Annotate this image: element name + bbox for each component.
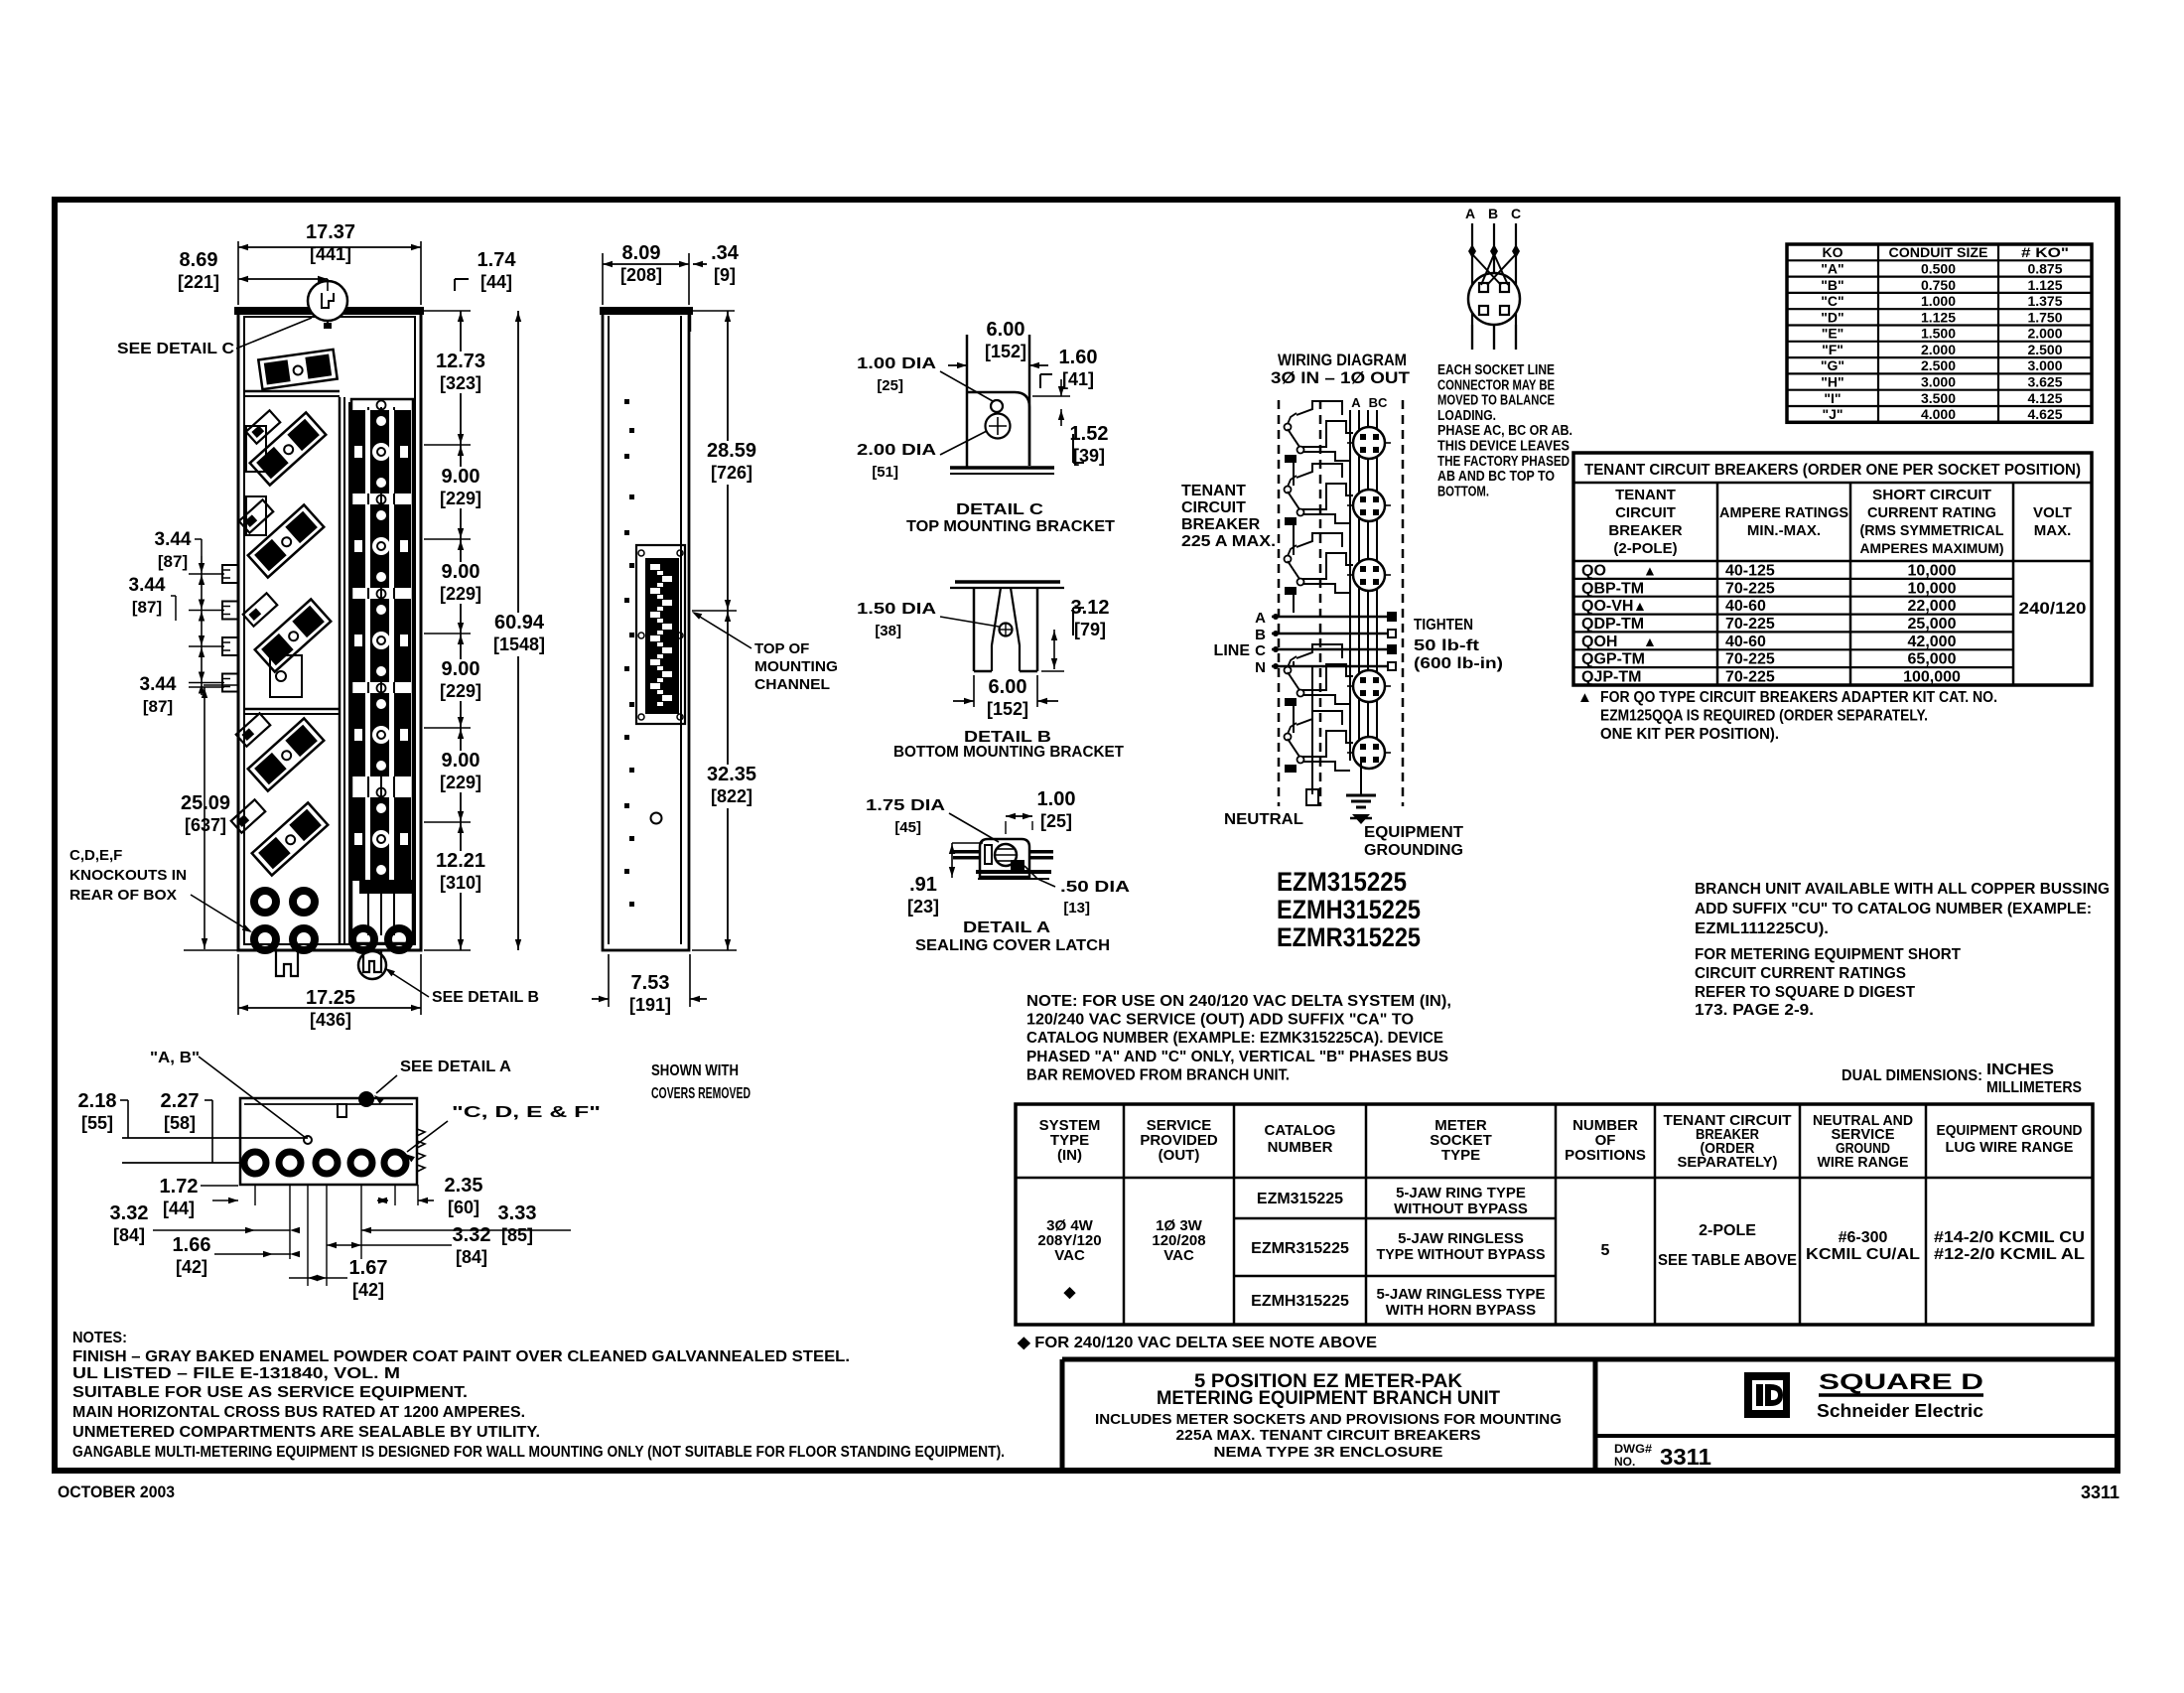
svg-text:MOUNTING: MOUNTING [754, 658, 838, 675]
svg-text:CONDUIT SIZE: CONDUIT SIZE [1889, 244, 1988, 260]
svg-text:225 A MAX.: 225 A MAX. [1181, 533, 1276, 550]
svg-text:MAIN HORIZONTAL CROSS BUS RATE: MAIN HORIZONTAL CROSS BUS RATED AT 1200 … [72, 1404, 525, 1421]
svg-text:SEALING COVER LATCH: SEALING COVER LATCH [915, 937, 1110, 954]
svg-text:9.00: 9.00 [442, 658, 480, 680]
svg-text:(RMS SYMMETRICAL: (RMS SYMMETRICAL [1860, 522, 2004, 539]
svg-text:EQUIPMENT: EQUIPMENT [1364, 824, 1463, 841]
svg-text:NOTES:: NOTES: [72, 1330, 127, 1346]
svg-text:1.75 DIA: 1.75 DIA [866, 797, 946, 814]
svg-text:QOH: QOH [1581, 634, 1617, 650]
svg-text:LINE: LINE [1214, 642, 1251, 659]
svg-text:EZMR315225: EZMR315225 [1251, 1240, 1349, 1257]
svg-text:METERING EQUIPMENT BRANCH UNIT: METERING EQUIPMENT BRANCH UNIT [1157, 1388, 1500, 1409]
svg-text:BRANCH UNIT AVAILABLE WITH ALL: BRANCH UNIT AVAILABLE WITH ALL COPPER BU… [1695, 881, 2110, 898]
svg-text:4.625: 4.625 [2027, 406, 2062, 422]
svg-text:LUG WIRE RANGE: LUG WIRE RANGE [1946, 1139, 2074, 1156]
svg-text:1.60: 1.60 [1059, 347, 1098, 368]
svg-text:22,000: 22,000 [1908, 598, 1957, 615]
svg-text:[229]: [229] [440, 773, 481, 792]
svg-text:[23]: [23] [907, 897, 939, 917]
svg-text:[38]: [38] [875, 623, 901, 639]
svg-text:1.74: 1.74 [478, 249, 517, 271]
svg-text:2.35: 2.35 [445, 1175, 483, 1197]
svg-text:CATALOG: CATALOG [1265, 1122, 1336, 1139]
svg-text:A: A [1255, 610, 1266, 627]
svg-text:BC: BC [1369, 395, 1388, 410]
svg-text:[9]: [9] [714, 265, 736, 285]
svg-text:70-225: 70-225 [1725, 580, 1775, 597]
svg-text:3311: 3311 [2081, 1482, 2119, 1502]
svg-text:[87]: [87] [132, 598, 162, 617]
svg-text:1.000: 1.000 [1921, 293, 1956, 309]
svg-text:WIRING DIAGRAM: WIRING DIAGRAM [1278, 351, 1407, 369]
svg-text:Schneider Electric: Schneider Electric [1817, 1401, 1983, 1421]
svg-text:1.375: 1.375 [2027, 293, 2062, 309]
svg-text:6.00: 6.00 [987, 319, 1025, 341]
svg-text:N: N [1255, 659, 1266, 676]
svg-text:QO: QO [1581, 562, 1606, 579]
svg-text:1.72: 1.72 [160, 1176, 199, 1198]
svg-text:[436]: [436] [310, 1010, 351, 1030]
svg-text:[44]: [44] [480, 272, 512, 292]
svg-text:ONE KIT PER POSITION).: ONE KIT PER POSITION). [1600, 726, 1779, 743]
svg-text:EZML111225CU).: EZML111225CU). [1695, 920, 1829, 937]
svg-text:BAR REMOVED FROM BRANCH UNIT.: BAR REMOVED FROM BRANCH UNIT. [1026, 1066, 1290, 1083]
svg-text:VAC: VAC [1054, 1247, 1085, 1264]
svg-text:REFER TO SQUARE D DIGEST: REFER TO SQUARE D DIGEST [1695, 984, 1915, 1001]
svg-text:B: B [1255, 627, 1266, 643]
svg-text:EQUIPMENT GROUND: EQUIPMENT GROUND [1937, 1122, 2083, 1139]
svg-text:B: B [1488, 206, 1498, 221]
svg-text:.34: .34 [711, 242, 740, 264]
svg-text:"F": "F" [1822, 342, 1843, 357]
svg-text:[42]: [42] [352, 1280, 384, 1300]
svg-text:[221]: [221] [178, 272, 219, 292]
svg-text:BOTTOM MOUNTING BRACKET: BOTTOM MOUNTING BRACKET [893, 744, 1124, 761]
svg-text:[25]: [25] [1040, 811, 1072, 831]
svg-text:[51]: [51] [872, 464, 898, 481]
svg-text:DWG#: DWG# [1614, 1442, 1652, 1456]
svg-text:[84]: [84] [113, 1225, 145, 1245]
svg-text:DETAIL A: DETAIL A [963, 919, 1051, 936]
svg-text:▲: ▲ [1577, 689, 1592, 706]
svg-text:[84]: [84] [456, 1247, 487, 1267]
svg-text:12.73: 12.73 [436, 351, 485, 372]
svg-text:70-225: 70-225 [1725, 651, 1775, 668]
svg-text:INCLUDES METER SOCKETS AND PRO: INCLUDES METER SOCKETS AND PROVISIONS FO… [1095, 1411, 1562, 1428]
svg-text:GANGABLE MULTI-METERING EQUIPM: GANGABLE MULTI-METERING EQUIPMENT IS DES… [72, 1444, 1005, 1461]
svg-text:1.52: 1.52 [1070, 423, 1109, 445]
svg-text:[79]: [79] [1074, 620, 1106, 639]
svg-text:2.500: 2.500 [2027, 342, 2062, 357]
svg-text:50 lb-ft: 50 lb-ft [1414, 637, 1480, 654]
svg-text:FINISH – GRAY BAKED ENAMEL POW: FINISH – GRAY BAKED ENAMEL POWDER COAT P… [72, 1348, 850, 1365]
svg-text:# KO": # KO" [2021, 244, 2069, 260]
svg-text:NO.: NO. [1614, 1455, 1635, 1469]
svg-text:C: C [1511, 206, 1521, 221]
svg-text:UNMETERED COMPARTMENTS ARE SEA: UNMETERED COMPARTMENTS ARE SEALABLE BY U… [72, 1424, 540, 1441]
svg-text:(OUT): (OUT) [1159, 1147, 1200, 1164]
svg-text:TOP MOUNTING BRACKET: TOP MOUNTING BRACKET [906, 518, 1115, 535]
svg-text:CIRCUIT: CIRCUIT [1615, 504, 1676, 521]
svg-text:17.25: 17.25 [306, 987, 355, 1009]
svg-text:[87]: [87] [143, 697, 173, 716]
svg-text:.50 DIA: .50 DIA [1060, 879, 1131, 896]
svg-text:SEE DETAIL A: SEE DETAIL A [400, 1058, 511, 1075]
svg-text:KCMIL CU/AL: KCMIL CU/AL [1806, 1246, 1920, 1263]
svg-text:[13]: [13] [1063, 900, 1090, 917]
svg-text:0.875: 0.875 [2027, 260, 2062, 276]
svg-text:[44]: [44] [163, 1199, 195, 1218]
svg-text:SEE DETAIL C: SEE DETAIL C [117, 341, 234, 357]
svg-text:TENANT CIRCUIT BREAKERS (ORDER: TENANT CIRCUIT BREAKERS (ORDER ONE PER S… [1584, 462, 2081, 479]
svg-text:[822]: [822] [711, 786, 752, 806]
svg-text:8.69: 8.69 [180, 249, 218, 271]
svg-text:[42]: [42] [176, 1257, 207, 1277]
svg-text:EZM315225: EZM315225 [1277, 867, 1407, 897]
svg-text:KO: KO [1823, 244, 1843, 260]
svg-text:EZMR315225: EZMR315225 [1277, 922, 1421, 952]
svg-text:REAR OF BOX: REAR OF BOX [69, 887, 177, 904]
svg-text:1.00 DIA: 1.00 DIA [857, 355, 937, 372]
svg-text:60.94: 60.94 [494, 612, 545, 634]
svg-text:65,000: 65,000 [1908, 651, 1957, 668]
svg-text:▲: ▲ [1643, 562, 1657, 578]
svg-text:70-225: 70-225 [1725, 669, 1775, 686]
svg-text:5: 5 [1601, 1242, 1610, 1259]
svg-text:9.00: 9.00 [442, 561, 480, 583]
svg-text:WIRE RANGE: WIRE RANGE [1818, 1154, 1909, 1171]
svg-text:40-60: 40-60 [1725, 634, 1766, 650]
svg-text:1.500: 1.500 [1921, 326, 1956, 342]
svg-text:[152]: [152] [987, 699, 1028, 719]
svg-text:"B": "B" [1821, 277, 1843, 293]
svg-text:WITH HORN BYPASS: WITH HORN BYPASS [1386, 1302, 1536, 1319]
svg-text:6.00: 6.00 [989, 676, 1027, 698]
svg-text:1.750: 1.750 [2027, 309, 2062, 325]
svg-text:1.50 DIA: 1.50 DIA [857, 601, 937, 618]
svg-text:BREAKER: BREAKER [1608, 522, 1682, 539]
svg-text:SEE TABLE ABOVE: SEE TABLE ABOVE [1658, 1252, 1797, 1269]
svg-text:"I": "I" [1824, 390, 1841, 406]
svg-text:TOP OF: TOP OF [754, 640, 809, 657]
svg-text:SEE DETAIL B: SEE DETAIL B [432, 989, 539, 1006]
svg-text:"G": "G" [1821, 357, 1844, 373]
svg-text:2.000: 2.000 [2027, 326, 2062, 342]
svg-text:0.500: 0.500 [1921, 260, 1956, 276]
svg-text:MILLIMETERS: MILLIMETERS [1986, 1079, 2082, 1096]
svg-text:THE FACTORY PHASED: THE FACTORY PHASED [1437, 454, 1570, 470]
svg-text:CONNECTOR MAY BE: CONNECTOR MAY BE [1437, 377, 1555, 393]
svg-text:173. PAGE 2-9.: 173. PAGE 2-9. [1695, 1002, 1814, 1019]
svg-text:[58]: [58] [164, 1113, 196, 1133]
svg-text:FOR METERING EQUIPMENT SHORT: FOR METERING EQUIPMENT SHORT [1695, 946, 1961, 963]
svg-text:100,000: 100,000 [1903, 669, 1961, 686]
svg-text:SQUARE D: SQUARE D [1819, 1369, 1983, 1394]
svg-text:4.000: 4.000 [1921, 406, 1956, 422]
svg-text:2.500: 2.500 [1921, 357, 1956, 373]
svg-text:C,D,E,F: C,D,E,F [69, 847, 122, 864]
svg-text:120/240 VAC SERVICE (OUT) ADD: 120/240 VAC SERVICE (OUT) ADD SUFFIX "CA… [1026, 1012, 1414, 1029]
svg-text:3.44: 3.44 [129, 575, 166, 596]
svg-text:◆: ◆ [1063, 1284, 1076, 1301]
svg-text:POSITIONS: POSITIONS [1565, 1147, 1646, 1164]
svg-text:"C, D, E & F": "C, D, E & F" [452, 1104, 601, 1121]
svg-text:5-JAW RINGLESS: 5-JAW RINGLESS [1398, 1230, 1524, 1247]
svg-text:42,000: 42,000 [1908, 634, 1957, 650]
svg-text:A: A [1351, 395, 1361, 410]
svg-text:3.000: 3.000 [1921, 374, 1956, 390]
svg-text:[87]: [87] [158, 552, 188, 571]
svg-text:MAX.: MAX. [2034, 522, 2072, 539]
svg-text:[55]: [55] [81, 1113, 113, 1133]
svg-text:4.125: 4.125 [2027, 390, 2062, 406]
svg-text:SUITABLE FOR USE AS SERVICE EQ: SUITABLE FOR USE AS SERVICE EQUIPMENT. [72, 1384, 468, 1401]
svg-text:3.500: 3.500 [1921, 390, 1956, 406]
svg-text:COVERS REMOVED: COVERS REMOVED [651, 1085, 751, 1102]
svg-text:VOLT: VOLT [2033, 504, 2072, 521]
svg-text:240/120: 240/120 [2019, 599, 2087, 618]
svg-text:[229]: [229] [440, 681, 481, 701]
svg-text:225A MAX. TENANT CIRCUIT BREAK: 225A MAX. TENANT CIRCUIT BREAKERS [1176, 1427, 1481, 1444]
svg-text:EZMH315225: EZMH315225 [1251, 1293, 1349, 1310]
svg-text:1.00: 1.00 [1037, 788, 1076, 810]
svg-text:#6-300: #6-300 [1839, 1229, 1888, 1246]
svg-text:10,000: 10,000 [1908, 580, 1957, 597]
svg-text:"A, B": "A, B" [150, 1050, 200, 1066]
svg-text:2.27: 2.27 [161, 1090, 200, 1112]
svg-text:QJP-TM: QJP-TM [1581, 669, 1641, 686]
svg-text:3.32: 3.32 [110, 1202, 149, 1224]
svg-text:9.00: 9.00 [442, 750, 480, 772]
svg-text:NOTE: FOR USE ON 240/120 VAC D: NOTE: FOR USE ON 240/120 VAC DELTA SYSTE… [1026, 993, 1451, 1010]
svg-text:TYPE: TYPE [1441, 1147, 1480, 1164]
svg-text:MOVED TO BALANCE: MOVED TO BALANCE [1437, 393, 1555, 409]
svg-text:3.000: 3.000 [2027, 357, 2062, 373]
svg-text:QGP-TM: QGP-TM [1581, 651, 1645, 668]
svg-text:QBP-TM: QBP-TM [1581, 580, 1644, 597]
svg-text:2.000: 2.000 [1921, 342, 1956, 357]
svg-text:[229]: [229] [440, 489, 481, 508]
svg-text:DETAIL C: DETAIL C [956, 501, 1044, 518]
svg-text:(600 lb-in): (600 lb-in) [1414, 655, 1503, 672]
svg-text:[208]: [208] [620, 265, 662, 285]
svg-text:[1548]: [1548] [493, 635, 545, 654]
svg-text:NEUTRAL: NEUTRAL [1224, 811, 1303, 828]
svg-text:1.67: 1.67 [349, 1257, 388, 1279]
svg-text:[726]: [726] [711, 463, 752, 483]
svg-text:"J": "J" [1822, 406, 1843, 422]
svg-text:CATALOG NUMBER (EXAMPLE: EZMK3: CATALOG NUMBER (EXAMPLE: EZMK315225CA). … [1026, 1030, 1443, 1047]
svg-text:"E": "E" [1822, 326, 1844, 342]
svg-text:CIRCUIT CURRENT RATINGS: CIRCUIT CURRENT RATINGS [1695, 965, 1906, 982]
svg-text:▲: ▲ [1643, 634, 1657, 649]
svg-text:28.59: 28.59 [707, 440, 756, 462]
svg-text:3Ø IN – 1Ø OUT: 3Ø IN – 1Ø OUT [1271, 368, 1411, 387]
svg-text:EZMH315225: EZMH315225 [1277, 895, 1421, 924]
svg-text:[441]: [441] [310, 244, 351, 264]
svg-text:2.18: 2.18 [78, 1090, 117, 1112]
svg-text:3.44: 3.44 [155, 529, 192, 550]
svg-text:A: A [1465, 206, 1475, 221]
svg-text:AB AND BC TOP TO: AB AND BC TOP TO [1437, 469, 1555, 485]
svg-text:3311: 3311 [1660, 1444, 1711, 1470]
svg-text:25.09: 25.09 [181, 792, 230, 814]
svg-text:KNOCKOUTS IN: KNOCKOUTS IN [69, 867, 187, 884]
svg-text:MIN.-MAX.: MIN.-MAX. [1747, 522, 1821, 539]
svg-text:[229]: [229] [440, 584, 481, 604]
svg-text:17.37: 17.37 [306, 221, 355, 243]
svg-text:CURRENT RATING: CURRENT RATING [1867, 504, 1996, 521]
svg-text:3.33: 3.33 [498, 1202, 537, 1224]
svg-text:ADD SUFFIX "CU" TO CATALOG NUM: ADD SUFFIX "CU" TO CATALOG NUMBER (EXAMP… [1695, 901, 2092, 917]
svg-text:VAC: VAC [1163, 1247, 1194, 1264]
svg-text:25,000: 25,000 [1908, 616, 1957, 633]
svg-text:[60]: [60] [448, 1198, 479, 1217]
svg-text:NEMA TYPE 3R ENCLOSURE: NEMA TYPE 3R ENCLOSURE [1214, 1444, 1443, 1461]
svg-text:SHORT CIRCUIT: SHORT CIRCUIT [1872, 487, 1991, 503]
svg-text:[310]: [310] [440, 873, 481, 893]
svg-text:0.750: 0.750 [1921, 277, 1956, 293]
svg-text:10,000: 10,000 [1908, 562, 1957, 579]
svg-text:C: C [1255, 642, 1266, 659]
svg-text:◆ FOR 240/120 VAC DELTA SEE NO: ◆ FOR 240/120 VAC DELTA SEE NOTE ABOVE [1017, 1335, 1377, 1351]
svg-text:DUAL DIMENSIONS:: DUAL DIMENSIONS: [1842, 1067, 1982, 1084]
svg-text:70-225: 70-225 [1725, 616, 1775, 633]
svg-text:EZM315225: EZM315225 [1257, 1191, 1343, 1207]
svg-text:3.625: 3.625 [2027, 374, 2062, 390]
svg-text:"H": "H" [1821, 374, 1843, 390]
svg-text:2-POLE: 2-POLE [1699, 1222, 1756, 1239]
svg-text:40-60: 40-60 [1725, 598, 1766, 615]
svg-text:5-JAW RINGLESS TYPE: 5-JAW RINGLESS TYPE [1377, 1286, 1546, 1303]
svg-text:"A": "A" [1821, 260, 1843, 276]
svg-text:1.66: 1.66 [173, 1234, 211, 1256]
svg-text:[41]: [41] [1062, 369, 1094, 389]
svg-text:[85]: [85] [501, 1225, 533, 1245]
svg-text:5-JAW RING TYPE: 5-JAW RING TYPE [1396, 1185, 1526, 1201]
svg-text:3.32: 3.32 [453, 1224, 491, 1246]
svg-text:[323]: [323] [440, 373, 481, 393]
svg-text:3.44: 3.44 [140, 674, 177, 695]
svg-text:EACH SOCKET LINE: EACH SOCKET LINE [1437, 362, 1555, 378]
svg-text:QO-VH: QO-VH [1581, 598, 1633, 615]
svg-text:[25]: [25] [877, 377, 903, 394]
svg-text:BOTTOM.: BOTTOM. [1437, 484, 1489, 499]
svg-text:OCTOBER 2003: OCTOBER 2003 [58, 1482, 175, 1501]
svg-text:AMPERE RATINGS: AMPERE RATINGS [1719, 504, 1848, 521]
svg-text:#14-2/0 KCMIL CU: #14-2/0 KCMIL CU [1934, 1229, 2085, 1246]
svg-text:AMPERES MAXIMUM): AMPERES MAXIMUM) [1860, 540, 2004, 556]
svg-text:"D": "D" [1821, 309, 1843, 325]
svg-text:NUMBER: NUMBER [1268, 1139, 1333, 1156]
svg-text:PHASED "A" AND "C" ONLY, VERTI: PHASED "A" AND "C" ONLY, VERTICAL "B" PH… [1026, 1049, 1448, 1065]
svg-text:GROUNDING: GROUNDING [1364, 842, 1463, 859]
svg-text:INCHES: INCHES [1986, 1061, 2054, 1078]
svg-text:12.21: 12.21 [436, 850, 485, 872]
svg-text:40-125: 40-125 [1725, 562, 1775, 579]
svg-text:"C": "C" [1821, 293, 1843, 309]
svg-text:[152]: [152] [985, 342, 1026, 361]
svg-text:WITHOUT BYPASS: WITHOUT BYPASS [1394, 1200, 1528, 1217]
svg-text:CIRCUIT: CIRCUIT [1181, 499, 1246, 516]
svg-text:▲: ▲ [1633, 598, 1647, 614]
svg-text:BREAKER: BREAKER [1181, 516, 1261, 533]
svg-text:CHANNEL: CHANNEL [754, 676, 830, 693]
svg-text:2.00 DIA: 2.00 DIA [857, 442, 937, 459]
svg-text:.91: .91 [909, 874, 937, 896]
svg-text:1.125: 1.125 [1921, 309, 1956, 325]
svg-text:[191]: [191] [629, 995, 671, 1015]
svg-text:1.125: 1.125 [2027, 277, 2062, 293]
svg-text:TENANT: TENANT [1615, 487, 1676, 503]
svg-text:TYPE WITHOUT BYPASS: TYPE WITHOUT BYPASS [1377, 1246, 1546, 1263]
svg-text:8.09: 8.09 [622, 242, 661, 264]
svg-text:LOADING.: LOADING. [1437, 408, 1496, 424]
svg-text:[45]: [45] [894, 819, 921, 836]
svg-text:7.53: 7.53 [631, 972, 670, 994]
svg-text:EZM125QQA IS REQUIRED (ORDER S: EZM125QQA IS REQUIRED (ORDER SEPARATELY. [1600, 708, 1928, 725]
svg-text:PHASE AC, BC OR AB.: PHASE AC, BC OR AB. [1437, 423, 1572, 439]
svg-text:9.00: 9.00 [442, 466, 480, 488]
svg-text:SEPARATELY): SEPARATELY) [1678, 1154, 1778, 1171]
svg-text:(2-POLE): (2-POLE) [1613, 540, 1677, 557]
svg-text:(IN): (IN) [1057, 1147, 1082, 1164]
svg-text:[637]: [637] [185, 815, 226, 835]
svg-text:QDP-TM: QDP-TM [1581, 616, 1644, 633]
svg-text:TIGHTEN: TIGHTEN [1414, 617, 1473, 634]
svg-text:32.35: 32.35 [707, 764, 756, 785]
svg-text:UL LISTED – FILE E-131840, VOL: UL LISTED – FILE E-131840, VOL. M [72, 1365, 400, 1382]
svg-text:THIS DEVICE LEAVES: THIS DEVICE LEAVES [1437, 439, 1570, 455]
svg-text:TENANT: TENANT [1181, 483, 1246, 499]
svg-text:#12-2/0 KCMIL AL: #12-2/0 KCMIL AL [1934, 1246, 2085, 1263]
svg-text:FOR QO TYPE CIRCUIT BREAKERS A: FOR QO TYPE CIRCUIT BREAKERS ADAPTER KIT… [1600, 689, 1997, 706]
svg-text:SHOWN WITH: SHOWN WITH [651, 1062, 739, 1079]
